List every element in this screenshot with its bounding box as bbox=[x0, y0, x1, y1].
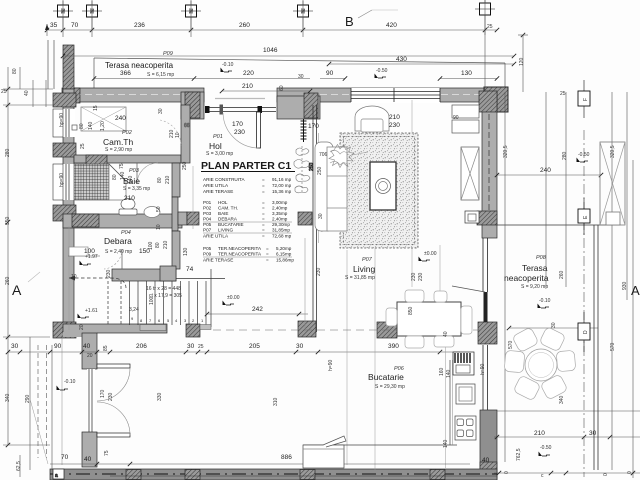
svg-text:S = 3,00 mp: S = 3,00 mp bbox=[206, 151, 233, 157]
door opening top (Hol entrance) sill bbox=[215, 98, 265, 100]
svg-text:210: 210 bbox=[389, 114, 400, 121]
svg-text:DEBARA: DEBARA bbox=[218, 217, 238, 222]
svg-text:P07: P07 bbox=[203, 228, 212, 233]
svg-text:=: = bbox=[262, 228, 265, 233]
svg-text:210: 210 bbox=[124, 195, 135, 202]
pier bottom wall 3 bbox=[300, 470, 315, 480]
wall vertical Baie,Debara / Hol bbox=[172, 163, 180, 197]
axis box F bbox=[578, 91, 590, 106]
dim 240 right bbox=[497, 174, 601, 176]
bottom exterior wall bbox=[50, 469, 497, 480]
svg-text:1046: 1046 bbox=[263, 47, 278, 54]
svg-text:420: 420 bbox=[386, 22, 397, 29]
sofa bbox=[315, 142, 333, 231]
top dim row 2 (1046) bbox=[63, 55, 514, 57]
bath tile floor bbox=[74, 164, 109, 200]
svg-text:340: 340 bbox=[5, 393, 11, 402]
svg-text:=: = bbox=[266, 252, 269, 257]
svg-text:A: A bbox=[631, 283, 640, 298]
pier right wall bottom bbox=[477, 211, 497, 225]
svg-text:320,5: 320,5 bbox=[503, 145, 509, 158]
svg-text:210: 210 bbox=[163, 240, 169, 249]
pier top wall 2 + corner block bbox=[181, 92, 204, 119]
svg-text:ARIE TERASE: ARIE TERASE bbox=[203, 189, 233, 194]
top dim row 430 bbox=[329, 63, 514, 65]
svg-text:16 tr x 28 = 448: 16 tr x 28 = 448 bbox=[146, 286, 181, 292]
svg-text:P08: P08 bbox=[536, 255, 547, 261]
svg-text:29,30mp: 29,30mp bbox=[272, 222, 290, 227]
corner column top-right bbox=[484, 87, 508, 112]
svg-text:=: = bbox=[262, 177, 265, 182]
svg-text:74: 74 bbox=[186, 266, 194, 273]
svg-text:P02: P02 bbox=[122, 130, 132, 136]
svg-text:-0.50: -0.50 bbox=[540, 445, 552, 451]
svg-text:90: 90 bbox=[54, 343, 62, 350]
svg-text:+1.97: +1.97 bbox=[85, 254, 98, 260]
svg-text:=: = bbox=[266, 258, 269, 263]
left wall upper strip (terrace level) bbox=[63, 45, 74, 89]
svg-text:210: 210 bbox=[165, 175, 171, 184]
svg-text:220: 220 bbox=[243, 70, 254, 77]
svg-text:230: 230 bbox=[411, 272, 417, 281]
svg-text:CAM. TH.: CAM. TH. bbox=[218, 206, 238, 211]
svg-text:ARIE TERASE: ARIE TERASE bbox=[203, 258, 233, 263]
pier mid axis 1 bbox=[186, 324, 200, 337]
svg-text:10: 10 bbox=[71, 274, 77, 280]
svg-text:0: 0 bbox=[627, 471, 633, 474]
window left 1 bbox=[62, 109, 75, 137]
svg-text:70: 70 bbox=[71, 22, 79, 29]
svg-text:P03: P03 bbox=[203, 211, 212, 216]
svg-text:430: 430 bbox=[396, 56, 407, 63]
svg-text:6,15mp: 6,15mp bbox=[276, 252, 292, 257]
dining chairs bbox=[405, 290, 424, 302]
small stove box bbox=[465, 211, 479, 223]
svg-text:30: 30 bbox=[298, 74, 304, 80]
svg-text:P04: P04 bbox=[203, 217, 212, 222]
svg-text:290: 290 bbox=[25, 394, 31, 403]
svg-text:P03: P03 bbox=[129, 168, 140, 174]
svg-text:15,86mp: 15,86mp bbox=[276, 258, 294, 263]
svg-text:A: A bbox=[12, 282, 22, 298]
svg-text:850: 850 bbox=[408, 306, 414, 315]
svg-text:280: 280 bbox=[562, 151, 568, 160]
main drawing groups appended below bbox=[48, 40, 508, 480]
svg-text:50: 50 bbox=[156, 206, 162, 212]
pier left wall 5 (corner) bbox=[53, 322, 76, 338]
svg-text:30: 30 bbox=[589, 430, 597, 437]
svg-text:Hol: Hol bbox=[209, 141, 222, 151]
svg-text:=: = bbox=[266, 246, 269, 251]
svg-text:h=90: h=90 bbox=[328, 360, 334, 371]
top column verticals bbox=[62, 0, 64, 30]
svg-text:72,68 mp: 72,68 mp bbox=[272, 234, 292, 239]
right terrace bottom edge bbox=[497, 410, 640, 412]
right glass wall lower bbox=[482, 345, 484, 411]
svg-text:210: 210 bbox=[242, 83, 253, 90]
window opening top (living) bbox=[351, 88, 440, 103]
top dim row 366/220/90/130 bbox=[94, 78, 194, 80]
svg-text:15: 15 bbox=[93, 105, 99, 111]
svg-text:280: 280 bbox=[5, 148, 11, 157]
bottom axis row bbox=[494, 472, 640, 474]
svg-text:170: 170 bbox=[308, 123, 319, 130]
bottom dim row 886 bbox=[50, 463, 470, 465]
svg-text:30: 30 bbox=[296, 343, 304, 350]
svg-text:25: 25 bbox=[198, 344, 204, 350]
armchair top of living bbox=[355, 106, 389, 131]
svg-text:90: 90 bbox=[326, 70, 334, 77]
svg-text:80: 80 bbox=[12, 68, 18, 74]
pier mid axis 2 bbox=[298, 321, 316, 337]
svg-text:80: 80 bbox=[157, 177, 163, 183]
svg-text:72,00 mp: 72,00 mp bbox=[272, 183, 292, 188]
wall top band (terrace slab edge + exterior wall) bbox=[63, 88, 204, 102]
svg-text:TER.NEACOPERITA: TER.NEACOPERITA bbox=[218, 252, 262, 257]
svg-text:230: 230 bbox=[389, 122, 400, 129]
svg-text:90: 90 bbox=[453, 115, 459, 121]
svg-text:75: 75 bbox=[119, 163, 125, 169]
svg-text:BAIE: BAIE bbox=[218, 211, 228, 216]
terrace chairs bbox=[504, 327, 576, 401]
terrace fence double line bbox=[593, 225, 595, 470]
svg-text:=: = bbox=[262, 183, 265, 188]
door leaf lower bbox=[97, 433, 130, 437]
svg-text:80: 80 bbox=[155, 242, 161, 248]
axis dashed line y330 bbox=[213, 329, 480, 331]
svg-text:P05: P05 bbox=[203, 222, 212, 227]
dining table bbox=[397, 302, 461, 336]
svg-text:40: 40 bbox=[83, 343, 91, 350]
pier bottom wall 2 bbox=[185, 470, 200, 480]
svg-text:70: 70 bbox=[61, 454, 69, 461]
wall vertical Cam.Th / Hol bbox=[181, 105, 190, 163]
bottom right dim 210/30 bbox=[494, 436, 640, 438]
svg-text:390: 390 bbox=[388, 343, 399, 350]
svg-text:Cam.Th: Cam.Th bbox=[103, 137, 134, 147]
window left 2 (baie) bbox=[62, 164, 75, 200]
column symbol A3 bbox=[181, 1, 201, 37]
right exterior wall (living) bbox=[482, 92, 497, 238]
svg-text:31,85mp: 31,85mp bbox=[272, 228, 290, 233]
pier bottom wall 4 bbox=[430, 470, 445, 480]
axis box D bbox=[578, 323, 590, 340]
svg-text:3,24: 3,24 bbox=[129, 307, 139, 313]
wall Baie / Debara bbox=[63, 214, 182, 228]
svg-text:-0.10: -0.10 bbox=[64, 379, 76, 385]
right terrace top edge bbox=[497, 224, 612, 226]
pier left wall 1 bbox=[53, 93, 76, 107]
svg-text:366: 366 bbox=[120, 70, 131, 77]
kitchen lower cabinet bbox=[303, 445, 344, 468]
pier top wall 3 bbox=[304, 93, 318, 118]
svg-text:D: D bbox=[583, 330, 589, 334]
svg-text:TER.NEACOPERITA: TER.NEACOPERITA bbox=[218, 246, 262, 251]
pier top wall 1 bbox=[62, 88, 80, 103]
niche shelf right wall bbox=[452, 105, 479, 118]
svg-text:40: 40 bbox=[443, 331, 449, 337]
svg-text:Living: Living bbox=[353, 264, 375, 274]
svg-text:40: 40 bbox=[24, 90, 30, 96]
svg-text:570: 570 bbox=[610, 342, 616, 351]
svg-text:P05: P05 bbox=[203, 246, 212, 251]
svg-text:=: = bbox=[262, 217, 265, 222]
svg-text:140: 140 bbox=[128, 175, 134, 184]
svg-text:30: 30 bbox=[318, 213, 324, 219]
svg-text:B: B bbox=[345, 14, 354, 29]
pier hol/living bbox=[298, 212, 312, 225]
toilet bbox=[121, 199, 135, 210]
pier bottom wall 1 bbox=[126, 470, 141, 480]
svg-text:230: 230 bbox=[234, 129, 245, 136]
svg-text:a: a bbox=[55, 473, 58, 479]
svg-text:230: 230 bbox=[316, 267, 322, 276]
svg-text:260: 260 bbox=[239, 22, 250, 29]
svg-text:2,40mp: 2,40mp bbox=[272, 206, 288, 211]
svg-text:±0.00: ±0.00 bbox=[424, 251, 437, 257]
svg-text:250: 250 bbox=[182, 161, 188, 170]
mid wall corner L to porch bbox=[63, 324, 97, 369]
ladder marker partition bbox=[301, 119, 307, 142]
svg-text:=: = bbox=[262, 200, 265, 205]
column symbol A1 bbox=[53, 1, 73, 37]
dim 210 door bbox=[222, 90, 310, 92]
svg-text:=: = bbox=[262, 222, 265, 227]
lower-left wall bottom part bbox=[82, 432, 97, 467]
svg-text:S = 31,85 mp: S = 31,85 mp bbox=[345, 275, 375, 281]
D axis dash-dot bbox=[583, 130, 585, 477]
svg-text:230: 230 bbox=[418, 272, 424, 281]
camth closet bbox=[81, 107, 126, 131]
svg-text:neacoperita: neacoperita bbox=[504, 273, 549, 283]
svg-text:340: 340 bbox=[559, 395, 565, 404]
svg-text:62,5: 62,5 bbox=[16, 461, 22, 471]
column symbol A4 bbox=[293, 1, 313, 37]
svg-text:3,00mp: 3,00mp bbox=[272, 200, 288, 205]
svg-text:P09: P09 bbox=[203, 252, 212, 257]
sink bbox=[144, 207, 160, 218]
svg-text:=: = bbox=[262, 211, 265, 216]
svg-text:80: 80 bbox=[79, 123, 85, 129]
wall Cam.Th / Baie bbox=[74, 155, 181, 163]
svg-text:=: = bbox=[262, 234, 265, 239]
svg-text:30: 30 bbox=[158, 108, 164, 114]
cam.th door arc bbox=[160, 120, 181, 146]
svg-text:HOL: HOL bbox=[218, 200, 228, 205]
svg-text:80: 80 bbox=[112, 174, 118, 180]
svg-text:25: 25 bbox=[80, 143, 86, 149]
svg-text:h=90: h=90 bbox=[480, 364, 486, 375]
svg-text:75: 75 bbox=[104, 450, 110, 456]
svg-text:0: 0 bbox=[603, 473, 609, 476]
svg-text:10: 10 bbox=[156, 224, 162, 230]
terrace door leaf bbox=[484, 292, 488, 322]
svg-text:260: 260 bbox=[559, 270, 565, 279]
left margin dim verticals bbox=[7, 67, 9, 445]
stairs bottom stubs bbox=[140, 325, 166, 331]
svg-text:25: 25 bbox=[487, 24, 493, 30]
hol entrance door leaf + swing bbox=[257, 112, 261, 148]
mid axis dim row bbox=[8, 351, 320, 353]
svg-text:10: 10 bbox=[175, 132, 181, 138]
svg-text:1,20: 1,20 bbox=[100, 121, 106, 131]
svg-text:20: 20 bbox=[79, 324, 85, 330]
svg-text:210: 210 bbox=[534, 430, 545, 437]
right wall lower (bucatarie) dark bbox=[480, 410, 497, 480]
svg-text:230: 230 bbox=[106, 269, 112, 278]
living rug stippled bbox=[340, 133, 418, 248]
column symbol A2 bbox=[82, 1, 102, 37]
mid structural wall bbox=[63, 324, 167, 333]
svg-text:+1.61: +1.61 bbox=[85, 308, 98, 314]
svg-text:hp=90: hp=90 bbox=[59, 173, 65, 187]
svg-text:140: 140 bbox=[120, 171, 126, 180]
stairs bbox=[69, 269, 225, 327]
svg-text:Debara: Debara bbox=[104, 236, 132, 246]
porch ramp diagonal bbox=[30, 399, 48, 464]
svg-text:0: 0 bbox=[504, 471, 510, 474]
svg-text:S = 6,15 mp: S = 6,15 mp bbox=[147, 72, 174, 78]
svg-text:S = 29,30 mp: S = 29,30 mp bbox=[375, 384, 405, 390]
fireplace cabinet X bbox=[461, 147, 479, 200]
svg-text:F: F bbox=[583, 98, 589, 101]
pier mid axis 4 (right wall) bbox=[478, 322, 497, 344]
svg-text:886: 886 bbox=[281, 454, 292, 461]
svg-text:320,5: 320,5 bbox=[610, 145, 616, 158]
svg-text:hp=90: hp=90 bbox=[59, 113, 65, 127]
svg-text:LIVING: LIVING bbox=[218, 228, 233, 233]
svg-text:P02: P02 bbox=[203, 206, 212, 211]
svg-text:930: 930 bbox=[622, 281, 628, 290]
right margin verticals bbox=[504, 92, 506, 462]
svg-text:=: = bbox=[262, 206, 265, 211]
svg-text:Terasa neacoperita: Terasa neacoperita bbox=[105, 61, 174, 70]
svg-text:40: 40 bbox=[482, 457, 490, 464]
door leaf upper (into bucatarie) bbox=[97, 364, 130, 368]
svg-text:35: 35 bbox=[50, 22, 58, 29]
svg-text:-0.10: -0.10 bbox=[539, 298, 551, 304]
exterior stair / gate right margin bbox=[600, 142, 625, 225]
column symbol B5 bbox=[475, 0, 495, 35]
svg-text:P01: P01 bbox=[203, 200, 212, 205]
svg-text:-0.50: -0.50 bbox=[376, 68, 388, 74]
kitchen work box bbox=[456, 384, 475, 404]
svg-text:Bucatarie: Bucatarie bbox=[368, 372, 404, 382]
svg-text:140: 140 bbox=[88, 121, 94, 130]
extension lines interior bbox=[192, 166, 194, 229]
svg-text:30: 30 bbox=[187, 343, 195, 350]
top dim row 1 bbox=[47, 29, 497, 31]
svg-text:91,16 mp: 91,16 mp bbox=[272, 177, 292, 182]
svg-text:170: 170 bbox=[100, 389, 106, 398]
debara door arc bbox=[121, 249, 123, 269]
svg-text:100: 100 bbox=[148, 241, 154, 250]
svg-text:-0.10: -0.10 bbox=[222, 62, 234, 68]
svg-text:40: 40 bbox=[84, 456, 92, 463]
round table terrace bbox=[525, 349, 557, 381]
svg-text:ARIE CONSTRUITA: ARIE CONSTRUITA bbox=[203, 177, 245, 182]
debara south wall bbox=[112, 269, 176, 281]
baie door arc bbox=[136, 163, 138, 184]
svg-text:130: 130 bbox=[461, 70, 472, 77]
svg-text:P01: P01 bbox=[213, 134, 223, 140]
svg-text:170: 170 bbox=[232, 121, 243, 128]
svg-text:5,20mp: 5,20mp bbox=[276, 246, 292, 251]
svg-text:Terasa: Terasa bbox=[522, 263, 548, 273]
pier left wall 2 bbox=[53, 143, 76, 157]
svg-text:30: 30 bbox=[551, 322, 557, 328]
dim 242 bbox=[207, 313, 308, 315]
left porch dashed edges bbox=[37, 345, 39, 458]
svg-text:330: 330 bbox=[157, 392, 163, 401]
coffee table bbox=[370, 162, 396, 210]
svg-text:2,40mp: 2,40mp bbox=[272, 217, 288, 222]
left exterior wall bbox=[63, 89, 74, 337]
svg-text:±0.00: ±0.00 bbox=[227, 295, 240, 301]
svg-text:550: 550 bbox=[5, 216, 11, 225]
pier right wall top bbox=[479, 91, 497, 112]
svg-text:250: 250 bbox=[317, 166, 323, 175]
svg-text:S = 3,35 mp: S = 3,35 mp bbox=[123, 186, 150, 192]
lower-left wall french door bbox=[87, 369, 95, 432]
kitchen counter edge bbox=[303, 444, 457, 446]
right glass wall upper bbox=[482, 238, 484, 292]
svg-text:242: 242 bbox=[252, 306, 263, 313]
svg-text:570: 570 bbox=[508, 340, 514, 349]
svg-text:236: 236 bbox=[134, 22, 145, 29]
svg-text:PLAN PARTER C1: PLAN PARTER C1 bbox=[201, 160, 291, 172]
debara shelf bbox=[69, 247, 88, 256]
svg-text:706: 706 bbox=[319, 152, 328, 158]
svg-text:S = 2,90 mp: S = 2,90 mp bbox=[105, 147, 132, 153]
svg-text:P09: P09 bbox=[163, 51, 173, 57]
svg-text:60: 60 bbox=[279, 85, 285, 91]
pier mid axis 3 bbox=[377, 322, 397, 338]
svg-text:260: 260 bbox=[5, 276, 11, 285]
svg-text:140: 140 bbox=[443, 439, 449, 448]
partition hol/living double line bbox=[312, 105, 314, 332]
svg-text:230: 230 bbox=[108, 392, 114, 401]
svg-text:25: 25 bbox=[1, 89, 7, 95]
svg-text:15,36 mp: 15,36 mp bbox=[272, 189, 292, 194]
axis box bottom-left bbox=[53, 469, 64, 479]
svg-text:30: 30 bbox=[11, 343, 19, 350]
svg-text:-0.50: -0.50 bbox=[578, 152, 590, 158]
kitchen sink bbox=[453, 352, 474, 375]
pier left wall 3 bbox=[53, 205, 76, 221]
svg-text:3,35mp: 3,35mp bbox=[272, 211, 288, 216]
axis box E bbox=[578, 209, 590, 223]
svg-text:240: 240 bbox=[115, 115, 126, 122]
svg-text:=: = bbox=[262, 189, 265, 194]
svg-text:P07: P07 bbox=[362, 257, 373, 263]
svg-text:250: 250 bbox=[309, 162, 315, 171]
svg-text:160: 160 bbox=[439, 367, 445, 376]
terrace slab top edge bbox=[94, 58, 505, 63]
svg-text:ARIE UTILA: ARIE UTILA bbox=[203, 183, 229, 188]
svg-text:140: 140 bbox=[446, 369, 452, 378]
svg-text:85: 85 bbox=[103, 345, 109, 351]
svg-text:20: 20 bbox=[87, 353, 93, 359]
svg-text:130: 130 bbox=[183, 247, 189, 256]
svg-text:66: 66 bbox=[184, 123, 190, 129]
svg-text:25: 25 bbox=[560, 91, 566, 97]
svg-text:206: 206 bbox=[136, 343, 147, 350]
svg-text:S = 2,40 mp: S = 2,40 mp bbox=[105, 249, 132, 255]
svg-text:240: 240 bbox=[540, 167, 551, 174]
svg-text:762,5: 762,5 bbox=[516, 448, 522, 461]
plant on side table bbox=[329, 145, 354, 168]
